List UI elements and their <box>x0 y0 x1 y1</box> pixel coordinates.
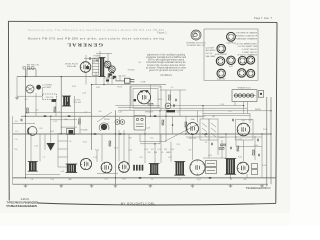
wire right edge b <box>270 97 272 184</box>
wire osc line <box>17 95 43 97</box>
wire mid drop 2 <box>74 96 76 134</box>
svg-text:C-11: C-11 <box>139 157 143 159</box>
wire cathode bus <box>13 177 277 179</box>
wire det drop <box>144 130 146 134</box>
capacitor C-40 <box>139 177 142 178</box>
wire tube1 cathode <box>85 73 87 85</box>
tube location chart box <box>204 29 258 80</box>
wire main B+ bus <box>13 133 272 135</box>
svg-text:R-7: R-7 <box>151 149 154 151</box>
volume arrow <box>100 123 109 132</box>
svg-text:6-F6: 6-F6 <box>122 179 126 181</box>
wire if drop 3 <box>165 90 167 142</box>
wire ifbox b1 <box>208 140 210 158</box>
IF can K-2 <box>62 96 71 106</box>
IF can K-8 <box>225 159 236 175</box>
svg-text:C-19: C-19 <box>34 146 38 148</box>
capacitor C-39 <box>258 139 259 142</box>
wire rf link <box>160 89 186 91</box>
svg-text:Sensitivity only. The differen: Sensitivity only. The difference are des… <box>28 28 165 32</box>
filter capacitor bank C-21 <box>133 165 143 171</box>
capacitor C-34 <box>119 134 122 135</box>
svg-text:T-2: T-2 <box>205 142 207 144</box>
svg-text:C-16: C-16 <box>170 149 174 151</box>
wire antenna drop <box>16 77 18 97</box>
tube socket V1 <box>226 32 236 44</box>
svg-text:C-24: C-24 <box>254 145 258 147</box>
tube socket V9 <box>247 69 255 77</box>
svg-text:S-1: S-1 <box>139 62 142 64</box>
wire t4-t9 link <box>192 135 194 160</box>
svg-text:tenna to the receiver antenna: tenna to the receiver antenna circuit <box>147 64 185 67</box>
resistor R-7 <box>162 120 164 125</box>
svg-text:T-2: T-2 <box>151 179 153 181</box>
svg-text:CX-300-21: CX-300-21 <box>160 74 172 77</box>
svg-text:C-29: C-29 <box>118 112 122 114</box>
capacitor C-3 block <box>66 102 69 105</box>
wire screen bus <box>203 113 250 115</box>
wire avc band <box>26 112 92 114</box>
wire plate bus right c <box>152 110 271 112</box>
svg-text:L-8: L-8 <box>177 112 180 114</box>
svg-text:AVC AUDIO: AVC AUDIO <box>206 49 217 52</box>
svg-text:OSC COIL: OSC COIL <box>45 97 53 99</box>
transformer T-1 core <box>99 58 106 77</box>
wire plug lead a <box>243 102 245 114</box>
capacitor C-44 <box>259 154 260 157</box>
rectifier socket blocks <box>108 73 116 78</box>
wire heater link <box>105 77 117 79</box>
svg-text:R-17: R-17 <box>83 142 87 144</box>
wire grid link b <box>61 126 77 128</box>
padder block <box>52 99 57 102</box>
svg-text:R-9: R-9 <box>189 150 192 152</box>
filter cone C-20 <box>47 143 56 151</box>
svg-text:250: 250 <box>148 152 151 154</box>
wire v2 plate stub <box>93 59 95 64</box>
wire bottom link 2 <box>97 172 118 174</box>
wire ps top drop <box>107 53 109 60</box>
svg-text:SPEAKER PLUG: SPEAKER PLUG <box>237 87 251 90</box>
tube V-5 shield box <box>236 120 254 141</box>
resistor R-13 <box>253 150 255 155</box>
wire dashed box drop <box>55 100 57 117</box>
svg-text:Models PB-570 and PB-589 are a: Models PB-570 and PB-589 are alike; part… <box>28 36 164 40</box>
oscillator coil L-5 <box>28 127 37 136</box>
chart right-column labels <box>235 31 258 56</box>
wire t4 plate <box>197 111 199 123</box>
ground G-6 <box>148 184 152 187</box>
resistor R-9 <box>237 146 239 151</box>
svg-text:USES 6-A8: USES 6-A8 <box>67 65 76 68</box>
ground G-7 <box>191 184 195 187</box>
wire agc line <box>140 141 166 143</box>
tube V-5 6-K7 IF <box>237 123 250 136</box>
tube V-2 anode blob <box>86 66 89 69</box>
wire v2 grid stub <box>85 55 87 62</box>
svg-text:C-6 OSC SHUNT 1400: C-6 OSC SHUNT 1400 <box>238 46 257 48</box>
wire speaker line a <box>115 104 160 106</box>
speaker SP-1 magnet marks <box>134 90 149 101</box>
IF transformer box A <box>200 119 209 140</box>
ground G-5 <box>114 184 118 187</box>
wire grid bus left <box>21 115 203 117</box>
svg-text:5-Z4: 5-Z4 <box>104 179 108 181</box>
dial knob <box>36 85 41 90</box>
wire if can feed <box>154 144 156 164</box>
svg-text:C-21: C-21 <box>61 171 65 173</box>
transformer T-1 primary coil <box>92 58 99 75</box>
wire ifbox top <box>202 106 204 119</box>
wire can k8 top <box>225 134 227 159</box>
wire jack drop <box>119 117 121 125</box>
svg-text:C-17: C-17 <box>168 157 172 159</box>
svg-text:condenser and alignment at 140: condenser and alignment at 1400 kc and <box>146 56 187 59</box>
svg-text:6-A8 OSC: 6-A8 OSC <box>217 78 226 81</box>
svg-text:C-9: C-9 <box>69 141 72 143</box>
tube V-4 6-A8 <box>187 123 199 135</box>
resistor R-11 <box>219 148 224 150</box>
svg-text:BY GOLIGHTLY DEL: BY GOLIGHTLY DEL <box>121 201 155 205</box>
svg-text:TOP VIEW OF CHASSIS: TOP VIEW OF CHASSIS <box>236 31 258 34</box>
phono jack J-2 <box>120 120 125 125</box>
svg-text:TOGGLE: TOGGLE <box>127 69 135 71</box>
svg-text:C-19 OSC SERIES 600KC: C-19 OSC SERIES 600KC <box>235 43 258 45</box>
capacitor C-38 <box>233 119 234 122</box>
oscillator dashed box <box>43 94 57 100</box>
wire mid drop 3 <box>79 116 81 134</box>
wire drop x161 <box>160 134 162 163</box>
resistor R-3 <box>148 104 153 106</box>
tube socket V7 <box>217 69 226 80</box>
svg-text:6-K7 I-F: 6-K7 I-F <box>206 53 214 55</box>
border frame left <box>7 21 10 200</box>
wire drop x129 <box>128 134 130 165</box>
tuning capacitor C-1 rotor <box>26 85 34 93</box>
wire ps drop 3 <box>111 74 113 85</box>
wire mid drop 1 <box>60 77 62 134</box>
wire osc stub drop <box>42 87 44 96</box>
wire filament bus <box>92 84 166 86</box>
wire speaker line b <box>118 107 160 109</box>
svg-text:VOLUME: VOLUME <box>80 130 88 132</box>
svg-text:connected through a standard d: connected through a standard dummy an- <box>146 61 186 64</box>
wire xfmr top stub <box>99 51 101 58</box>
wire drop x222 <box>221 140 223 158</box>
svg-text:I-F 465 KC TRIMMERS: I-F 465 KC TRIMMERS <box>237 55 257 57</box>
wire det grid drop <box>172 116 174 134</box>
wire osc coil drop <box>179 90 181 116</box>
tube V-7 6-F6 <box>101 162 112 173</box>
wire drop x97 <box>96 150 98 162</box>
svg-text:R-15: R-15 <box>114 148 118 150</box>
tube V-2 6-A8 converter <box>80 62 91 73</box>
wire speaker left <box>130 86 132 105</box>
instruction paragraph block (rotated) <box>146 53 187 77</box>
svg-text:L-2: L-2 <box>159 87 162 89</box>
tube V-8 5-Z4 <box>119 162 130 173</box>
svg-text:T-4: T-4 <box>230 179 232 181</box>
svg-text:adjustment of the oscillator p: adjustment of the oscillator padding <box>147 53 186 56</box>
resistor R-10 <box>27 108 29 113</box>
svg-text:C-15: C-15 <box>157 149 161 151</box>
tube V-10 rect <box>237 162 249 174</box>
wire xfmr bottom <box>103 77 105 85</box>
border frame top <box>8 21 277 22</box>
svg-text:C-12: C-12 <box>248 120 252 122</box>
wire audio drop <box>114 110 116 184</box>
svg-text:R-10: R-10 <box>238 156 242 158</box>
wire ps top stub <box>96 52 112 54</box>
capacitor C-33 <box>94 134 97 135</box>
IF can K-6 <box>149 164 160 175</box>
ground G-3 <box>59 184 63 187</box>
resistor R-2 <box>79 119 81 124</box>
tube socket V6 <box>247 56 255 64</box>
wire avc stub <box>13 123 36 125</box>
svg-text:C-10: C-10 <box>53 121 57 123</box>
capacitor C-35 <box>154 116 157 117</box>
power cord <box>116 80 125 82</box>
chart left-column labels <box>206 47 217 57</box>
svg-text:R-16: R-16 <box>72 86 76 88</box>
svg-text:C-27: C-27 <box>228 111 232 113</box>
svg-text:6-Q7: 6-Q7 <box>197 179 201 181</box>
capacitor C-32 <box>68 116 71 117</box>
tuning gang frame <box>58 134 68 168</box>
svg-text:6-K7: 6-K7 <box>242 120 246 122</box>
rectifier tube V-1 envelope a <box>104 61 111 69</box>
speaker plug connector <box>258 91 264 98</box>
svg-text:C-14: C-14 <box>144 149 148 151</box>
svg-text:R-14: R-14 <box>263 129 267 131</box>
svg-text:Page 7, Geo. T: Page 7, Geo. T <box>254 16 273 20</box>
tube socket V4 <box>227 56 235 68</box>
svg-text:GENERAL ELECTRIC: GENERAL ELECTRIC <box>186 41 206 44</box>
svg-text:SW: SW <box>129 138 132 140</box>
capacitor C-47 <box>96 60 99 61</box>
terminal boxes <box>206 161 217 174</box>
IF can K-7 <box>174 162 185 176</box>
svg-text:465KC: 465KC <box>219 137 225 139</box>
resistor R-5 <box>185 122 187 127</box>
wire grid link a <box>50 119 77 121</box>
wire ps drop 4 <box>115 76 117 81</box>
svg-text:8MF: 8MF <box>68 179 71 181</box>
svg-text:PILOT: PILOT <box>118 87 123 89</box>
wire left edge drop <box>12 116 14 184</box>
capacitor block C-8 <box>67 129 75 135</box>
svg-text:R-5: R-5 <box>151 138 154 140</box>
svg-text:6-F6 OUTPUT: 6-F6 OUTPUT <box>215 54 228 56</box>
wire speaker line c <box>118 109 152 111</box>
resistor R-4 <box>169 95 171 100</box>
svg-text:T-3: T-3 <box>178 179 180 181</box>
antenna coil L-1 <box>27 69 36 77</box>
svg-text:L-7: L-7 <box>43 156 46 158</box>
wire plate bus right b <box>133 107 247 109</box>
tube V-9 output 6-F6 <box>190 160 205 175</box>
svg-text:50M: 50M <box>154 152 158 154</box>
wire mixer drop <box>185 116 187 134</box>
svg-text:R-8: R-8 <box>164 149 167 151</box>
wire right edge a <box>266 97 268 186</box>
wire plug lead b <box>246 102 248 114</box>
svg-text:C-13: C-13 <box>176 144 180 146</box>
wire left long drop <box>25 69 27 178</box>
wire bottom link 1 <box>26 174 61 176</box>
svg-text:R-3: R-3 <box>40 128 43 130</box>
resistor R-1 <box>54 107 56 112</box>
terminal strip marks <box>23 67 34 69</box>
wire k8 bottom <box>230 174 232 178</box>
jack body <box>167 110 176 112</box>
svg-text:R-2: R-2 <box>36 110 39 112</box>
svg-text:6-Q7 DET: 6-Q7 DET <box>206 47 215 49</box>
svg-text:SHOWING LOCATION OF: SHOWING LOCATION OF <box>235 34 258 37</box>
wire ant coil drop <box>170 90 172 106</box>
svg-text:C-25: C-25 <box>93 157 97 159</box>
wire ifbox b2 <box>217 140 219 155</box>
wire ps drop 5 <box>119 76 121 81</box>
phono jack J-1 <box>115 120 120 125</box>
svg-text:6-A8: 6-A8 <box>191 118 195 121</box>
svg-text:R-19: R-19 <box>50 131 54 133</box>
svg-text:105-125V: 105-125V <box>118 75 126 77</box>
wire output bus <box>203 115 250 117</box>
svg-text:C-6: C-6 <box>58 112 61 114</box>
IF transformer box B <box>209 119 218 140</box>
wire diagonal avc <box>165 124 198 141</box>
wire ground bus <box>13 183 269 185</box>
svg-text:DIAL LAMP: DIAL LAMP <box>206 55 217 58</box>
resistor R-8 <box>109 141 111 146</box>
speaker SP-1 frame <box>130 86 161 110</box>
ground G-2 <box>24 184 28 187</box>
wire top antenna bus <box>17 76 100 78</box>
svg-text:PHONO: PHONO <box>104 119 111 121</box>
svg-text:R-6: R-6 <box>15 149 18 151</box>
wire agc drop <box>139 134 141 142</box>
wire can1 feed <box>30 134 32 162</box>
tube socket V8 <box>238 69 246 77</box>
wire det line <box>140 143 160 145</box>
wire speaker frame drop <box>133 110 135 116</box>
svg-text:SPEAKER: SPEAKER <box>145 110 154 113</box>
capacitor C-43 <box>231 147 232 150</box>
svg-text:COIL 465: COIL 465 <box>73 102 81 104</box>
tube V-6 6-Q7 <box>80 158 91 169</box>
svg-text:C-28: C-28 <box>146 128 150 130</box>
phono input jack J-3 <box>165 103 171 109</box>
svg-text:440 MMF: 440 MMF <box>43 87 51 89</box>
svg-text:C-26: C-26 <box>82 93 86 95</box>
svg-text:6-K7: 6-K7 <box>229 66 233 68</box>
rectifier tube V-1 envelope b <box>109 66 116 74</box>
capacitor C-45 <box>176 99 177 102</box>
svg-text:GENERAL: GENERAL <box>66 43 103 48</box>
svg-text:L-3: L-3 <box>171 87 174 89</box>
svg-text:R-1: R-1 <box>15 121 18 123</box>
svg-text:600 kc with signal generator o: 600 kc with signal generator output <box>148 59 184 62</box>
border frame bottom <box>38 203 276 205</box>
svg-text:SCHENECTADY N Y: SCHENECTADY N Y <box>187 44 206 47</box>
wire plugbox drop <box>234 102 236 106</box>
wire det bottom <box>203 157 226 159</box>
ground G-4 <box>90 184 94 187</box>
volume control R-9 arc <box>99 123 109 130</box>
svg-text:CONE: CONE <box>141 81 147 83</box>
tube socket V5 <box>238 56 246 64</box>
ground G-8 <box>229 184 233 187</box>
border frame right <box>276 22 277 203</box>
svg-text:R-4: R-4 <box>99 111 102 113</box>
svg-text:C-18: C-18 <box>128 150 132 152</box>
wire triangle drop <box>50 116 52 142</box>
svg-text:FIELD: FIELD <box>158 99 164 101</box>
capacitor C-37 <box>205 134 208 135</box>
wire t5 drop <box>254 136 256 160</box>
wire drop x102 <box>101 134 103 162</box>
resistor R-6 <box>221 144 226 146</box>
svg-text:I-F: I-F <box>203 116 205 118</box>
capacitor C-31 <box>44 116 47 117</box>
svg-text:DET-OSC: DET-OSC <box>189 138 197 140</box>
tube socket V3 <box>216 57 224 65</box>
wire drop x119 <box>118 130 120 162</box>
wire ps drop 1 <box>95 72 97 85</box>
svg-text:C-2 ANT 1400 KC: C-2 ANT 1400 KC <box>242 51 258 54</box>
svg-text:C-20: C-20 <box>50 179 54 181</box>
svg-text:as shown. Repeat adjustments i: as shown. Repeat adjustments in order <box>146 66 186 69</box>
capacitor C-36 <box>174 104 175 107</box>
ground G-9 <box>260 184 264 187</box>
wire right drop a <box>261 134 263 178</box>
svg-text:C-7: C-7 <box>85 112 88 114</box>
wire v2 top link <box>84 58 100 60</box>
wire diagonal det <box>97 112 112 122</box>
wire B+ return <box>186 136 262 138</box>
capacitor C-42 <box>212 143 213 146</box>
svg-text:TUBES AND TRIMMERS: TUBES AND TRIMMERS <box>236 37 258 40</box>
AC plug <box>125 78 135 83</box>
svg-text:C-5: C-5 <box>15 131 18 133</box>
GE monogram logo <box>191 30 201 40</box>
wire right mid link <box>236 146 262 148</box>
svg-text:R-20: R-20 <box>238 139 242 141</box>
svg-text:C-2: C-2 <box>25 99 28 101</box>
tone switch box <box>134 116 146 131</box>
speaker SP-1 cone <box>137 91 150 104</box>
svg-text:L-6: L-6 <box>31 179 34 181</box>
svg-text:R-18: R-18 <box>262 165 266 167</box>
tube socket V2 <box>215 44 228 56</box>
capacitor C-41 <box>209 177 212 178</box>
IF can K-4 <box>66 164 78 173</box>
wire drop x145b <box>144 134 146 163</box>
svg-text:given for greatest accuracy to: given for greatest accuracy too <box>149 69 184 72</box>
wire xfmr right <box>91 85 93 151</box>
wire t10 bottom <box>246 174 248 178</box>
ground G-1 <box>15 96 19 99</box>
svg-text:C-22: C-22 <box>208 155 212 157</box>
svg-text:C-4: C-4 <box>15 139 18 141</box>
speaker plug box <box>232 90 257 102</box>
wire if drop 1 <box>149 85 151 117</box>
wire drop x171 <box>170 142 172 162</box>
svg-text:C-4 DET 1400 KC: C-4 DET 1400 KC <box>242 49 258 51</box>
capacitor C-30 <box>21 119 22 122</box>
